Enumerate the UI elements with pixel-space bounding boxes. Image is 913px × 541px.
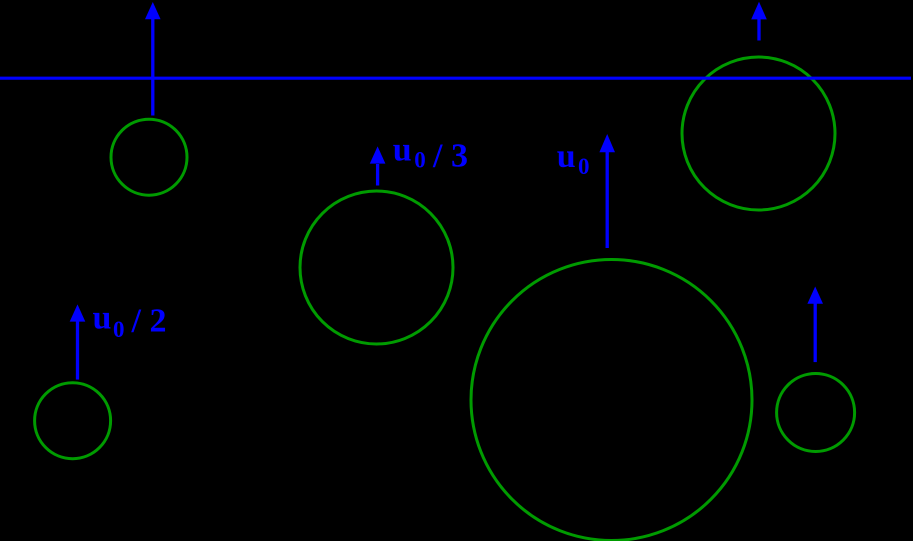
svg-text:u: u: [93, 300, 112, 337]
bubble B2 (bottom-left circle): [35, 383, 111, 459]
arrow A1 (top-left bubble, crosses surface): [145, 2, 161, 116]
svg-text:u: u: [393, 132, 412, 169]
svg-text:/ 2: / 2: [131, 303, 167, 340]
svg-text:0: 0: [414, 147, 426, 172]
arrow A4 (u0 big bubble): [599, 134, 615, 248]
water surface line: [0, 77, 911, 80]
arrow A2 (u0/2 bubble): [70, 304, 86, 379]
bubble B5 (top-right circle crossing surface): [682, 57, 835, 210]
bubble B6 (right small circle): [777, 374, 855, 452]
bubble B1 (top-left circle): [111, 119, 187, 195]
arrow A5 (top-right bubble at surface): [751, 2, 767, 41]
label u0: [557, 138, 590, 179]
svg-text:0: 0: [113, 317, 125, 342]
bubble B3 (middle circle): [300, 191, 453, 344]
svg-text:0: 0: [578, 154, 590, 179]
label u0/3: [393, 132, 468, 175]
arrow A3 (u0/3 bubble): [370, 146, 386, 185]
svg-text:/ 3: / 3: [432, 137, 468, 174]
svg-text:u: u: [557, 138, 576, 175]
bubble B4 (big circle): [471, 260, 752, 541]
label u0/2: [93, 300, 167, 342]
arrow A6 (right small bubble): [807, 287, 823, 363]
